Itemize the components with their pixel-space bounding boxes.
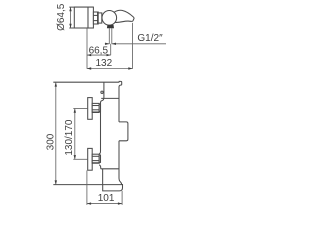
joint line below cap [101, 97, 119, 99]
extension line right (handle tip) [132, 23, 134, 69]
foot block [103, 185, 123, 191]
body left edge lowest [102, 169, 104, 185]
outlet pipe line right [111, 28, 113, 44]
joint line lower [101, 168, 119, 170]
extension line left (wall face) [86, 28, 88, 69]
dimension 132 [87, 68, 133, 70]
wall plate (top view) [74, 7, 88, 28]
bottom tick line [53, 184, 122, 186]
dimension 130/170 [74, 109, 76, 160]
dimension line Ø64,5 [70, 7, 72, 28]
wall plate front ring [88, 7, 93, 28]
bottom union flange [88, 148, 93, 170]
svg-text:300: 300 [45, 133, 56, 150]
lever handle (top view) [114, 10, 134, 22]
extension 101 right [121, 191, 123, 205]
svg-text:G1/2″: G1/2″ [137, 33, 163, 44]
connection nut [93, 12, 98, 24]
G1/2 leader left arrow [105, 43, 110, 45]
right edge lower + chamfer [119, 141, 122, 185]
bottom union washer [99, 155, 100, 162]
top union nut [92, 103, 99, 112]
top union washer [99, 104, 100, 111]
shower outlet boss (right bump) [119, 122, 128, 141]
tick top (plate top edge extended) [69, 6, 93, 8]
G1/2 leader right line [112, 43, 166, 45]
svg-text:Ø64,5: Ø64,5 [56, 3, 67, 31]
connection spacer [98, 13, 102, 23]
tick union bottom [73, 158, 87, 160]
dimension 66,5 [87, 54, 111, 56]
aerator outlet (dark) [107, 25, 114, 28]
shoulder below bottom union [99, 165, 101, 169]
mixer body circle (top view) [102, 10, 117, 25]
top edge / tick line [53, 81, 119, 83]
svg-text:130/170: 130/170 [64, 119, 75, 156]
outlet pipe line left [108, 28, 110, 44]
top union flange [88, 98, 93, 120]
svg-text:132: 132 [95, 58, 112, 69]
extension 101 left [86, 170, 88, 205]
dimension 101 [87, 203, 122, 205]
tick union top [73, 108, 87, 110]
side screw [101, 91, 103, 93]
svg-text:101: 101 [98, 193, 115, 204]
dimension 300 [55, 82, 57, 184]
body left edge upper + shoulder [99, 82, 104, 154]
tick bottom (plate bottom edge extended) [69, 27, 93, 29]
extension line spout centre [110, 44, 112, 55]
svg-text:66,5: 66,5 [89, 45, 109, 56]
cap nub and right edge upper [119, 81, 122, 122]
bottom union nut [92, 154, 99, 163]
